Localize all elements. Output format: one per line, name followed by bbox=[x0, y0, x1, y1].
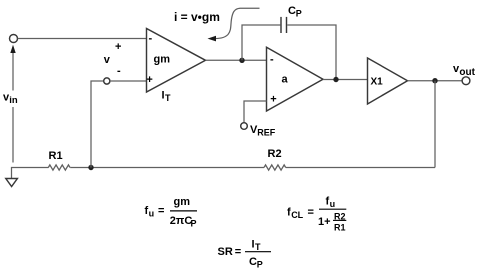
svg-text:=: = bbox=[235, 246, 241, 258]
svg-text:P: P bbox=[257, 260, 263, 269]
wire: X1 output to vout terminal bbox=[408, 80, 463, 82]
svg-text:X1: X1 bbox=[371, 77, 384, 88]
resistor R2 bbox=[264, 165, 286, 170]
svg-text:+: + bbox=[146, 74, 152, 86]
junction node (cap branch) bbox=[239, 58, 244, 63]
ground bbox=[6, 179, 18, 187]
svg-text:v: v bbox=[104, 54, 111, 66]
svg-text:a: a bbox=[282, 73, 289, 85]
svg-text:out: out bbox=[459, 67, 475, 78]
svg-text:T: T bbox=[255, 242, 261, 252]
formula SR = IT / CP bbox=[218, 239, 272, 269]
svg-text:1+: 1+ bbox=[318, 216, 331, 228]
op-amp gm (transconductance amp) bbox=[147, 29, 206, 93]
wire: vin terminal to gm inverting input bbox=[18, 38, 147, 40]
svg-text:R1: R1 bbox=[334, 223, 346, 233]
resistor R1 bbox=[48, 165, 70, 170]
wire: a output to X1 bbox=[323, 79, 368, 81]
formula fu = gm / 2piCP bbox=[145, 196, 198, 229]
wire: feedback node up to input bubble bbox=[91, 81, 104, 168]
svg-text:T: T bbox=[165, 93, 171, 103]
svg-text:R2: R2 bbox=[268, 148, 282, 160]
wire: bottom rail left (ground corner to R1) bbox=[12, 168, 49, 179]
VREF terminal bbox=[241, 123, 248, 130]
svg-text:-: - bbox=[270, 54, 274, 66]
wire: vin lower segment to ground corner bbox=[12, 107, 14, 163]
svg-text:P: P bbox=[191, 219, 197, 229]
svg-text:SR: SR bbox=[218, 246, 233, 258]
svg-text:gm: gm bbox=[154, 54, 171, 66]
input terminal vin bbox=[10, 35, 18, 43]
svg-text:2πC: 2πC bbox=[170, 215, 193, 227]
svg-text:P: P bbox=[296, 9, 302, 19]
svg-text:i = v•gm: i = v•gm bbox=[174, 10, 220, 24]
capacitor CP bbox=[281, 17, 287, 33]
op-amp a bbox=[267, 47, 324, 111]
vout terminal bbox=[462, 77, 470, 85]
svg-text:REF: REF bbox=[257, 128, 276, 138]
vin arrow bbox=[10, 45, 15, 91]
svg-text:C: C bbox=[249, 256, 257, 268]
svg-text:+: + bbox=[115, 41, 121, 53]
svg-text:CL: CL bbox=[291, 210, 303, 220]
formula fCL = fu / (1 + R2/R1) bbox=[287, 196, 346, 233]
svg-text:-: - bbox=[117, 65, 121, 77]
wire: R2 to vout branch bbox=[286, 167, 435, 169]
svg-text:=: = bbox=[158, 205, 164, 217]
svg-text:R1: R1 bbox=[49, 150, 63, 162]
svg-text:+: + bbox=[270, 93, 276, 105]
wire: vout branch down to R2 bbox=[434, 81, 436, 168]
wire: bubble to gm non-inverting input bbox=[110, 80, 147, 82]
wire: a non-inverting input to VREF bbox=[244, 101, 267, 123]
curved arrow (current direction) bbox=[208, 8, 260, 41]
junction node (cap joins a output) bbox=[333, 77, 338, 82]
svg-text:=: = bbox=[308, 207, 314, 219]
wire: cap branch up and right bbox=[242, 25, 280, 60]
svg-text:in: in bbox=[9, 95, 18, 106]
inverting input terminal bubble bbox=[104, 78, 110, 84]
wire: cap right to amp a output node bbox=[287, 25, 336, 80]
svg-text:u: u bbox=[149, 209, 155, 219]
wire: R1 to R2 bottom rail bbox=[70, 167, 264, 169]
wire: gm output to amp a bbox=[206, 59, 267, 61]
junction node (feedback node) bbox=[88, 165, 93, 170]
buffer X1 bbox=[368, 58, 408, 104]
svg-text:-: - bbox=[149, 33, 153, 45]
svg-text:gm: gm bbox=[174, 196, 191, 208]
junction node (vout branch) bbox=[432, 78, 437, 83]
svg-text:u: u bbox=[330, 199, 336, 209]
svg-text:C: C bbox=[288, 5, 296, 17]
